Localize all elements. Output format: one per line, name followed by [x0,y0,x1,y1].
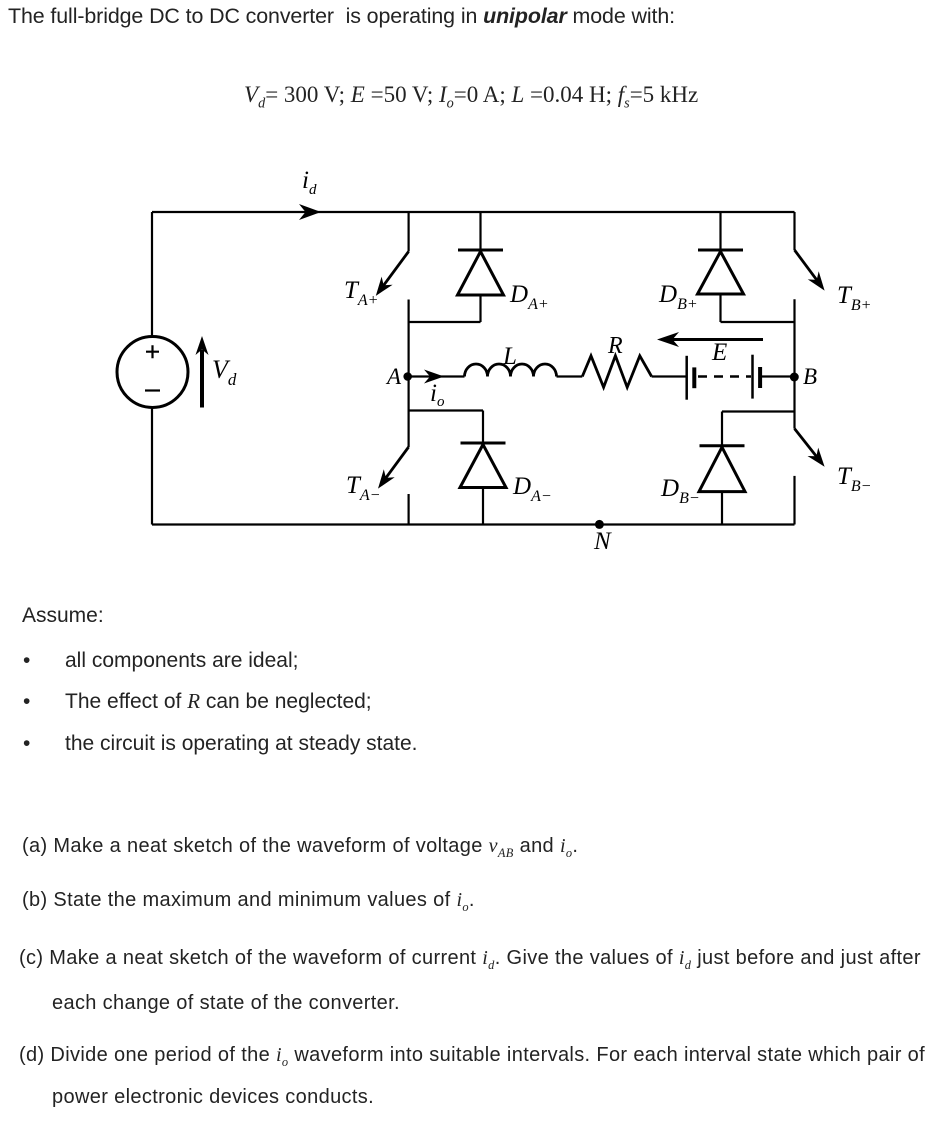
diode DB- [699,446,745,492]
diode DA- [460,443,506,488]
bullet 1 [23,650,30,671]
question (d) line 2 [52,1087,374,1107]
battery E cell 2 long plate [751,355,754,399]
battery E cell 1 long plate [685,356,688,400]
bullet 3 [23,733,30,754]
wire DA+ stem top [479,212,481,250]
voltage source Vd circle [117,337,188,408]
transistor TB+ switch [795,250,825,291]
transistor TA- switch [378,447,409,489]
svg-text:E: E [711,339,727,366]
svg-text:TA+: TA+ [344,277,378,309]
node N [595,520,604,529]
wire DA- stem top [482,411,484,444]
question (d) line 1 [19,1045,925,1065]
wire DB+/TB+ connector [721,321,795,323]
svg-text:DA−: DA− [512,473,552,505]
svg-text:io: io [430,380,445,410]
wire battery to node B [760,375,794,377]
arrow Vd [196,336,209,408]
wire A-leg middle [408,300,410,448]
wire A/DA- connector [409,409,483,411]
bullet 2 [23,691,30,712]
wire DA+ stem bottom [479,295,481,322]
node A [403,372,412,381]
svg-text:L: L [502,343,517,370]
battery E cell 2 short plate [758,367,762,388]
wire DB+ stem top [719,212,721,250]
wire A-leg upper [408,212,410,252]
svg-text:TB+: TB+ [837,282,871,314]
question (c) line 2 [52,993,400,1013]
parameter equation [244,83,698,106]
diode DB+ [698,250,744,294]
node B [790,373,799,382]
svg-text:DA+: DA+ [509,281,549,313]
battery E dashed link [698,375,751,378]
wire top rail [152,211,795,213]
transistor TA+ switch [376,252,409,296]
wire resistor to battery [652,375,687,377]
wire DB- stem bottom [721,492,723,525]
wire DA- stem bottom [482,488,484,525]
wire bottom rail [152,523,795,525]
wire DB+ stem bottom [719,294,721,322]
wire node A to inductor [408,375,465,377]
title paragraph [8,6,675,27]
question (c) line 1 [19,948,921,968]
diode DA+ [458,250,504,295]
wire left rail upper [151,212,153,337]
current arrow id on top rail [299,204,321,220]
inductor L [465,364,557,377]
svg-text:TA−: TA− [346,472,380,504]
battery E cell 1 short plate [692,367,696,388]
svg-text:DB−: DB− [660,475,700,507]
wire B/DB- connector [722,410,795,412]
wire A-leg lower [408,494,410,525]
wire B-leg middle [793,299,795,428]
transistor TB- switch [795,429,825,467]
wire DB- stem top [721,412,723,446]
question (a) [22,836,578,856]
svg-text:A: A [385,364,402,389]
wire B-leg upper [793,212,795,250]
current arrow io [424,370,444,384]
wire TA+/DA+ connector [409,321,481,323]
wire inductor to resistor [557,375,583,377]
wire left rail lower [151,408,153,525]
svg-text:TB−: TB− [837,463,871,495]
resistor R [582,356,651,388]
svg-text:N: N [593,528,612,555]
assume heading [22,605,104,626]
svg-text:B: B [803,364,817,389]
question (b) [22,890,475,910]
arrow E direction [657,332,763,347]
wire B-leg lower [793,476,795,525]
svg-text:DB+: DB+ [658,281,698,313]
svg-text:id: id [302,167,317,198]
svg-text:R: R [607,333,623,359]
svg-text:Vd: Vd [212,355,237,389]
